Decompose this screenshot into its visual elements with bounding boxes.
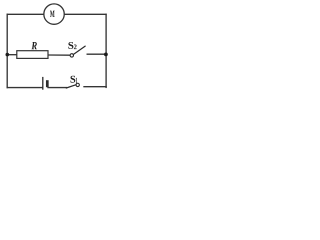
battery long plate [42, 77, 44, 90]
motor label M [50, 11, 55, 17]
switch S2 pivot circle [70, 54, 73, 57]
resistor R box [17, 51, 48, 59]
wire top-left segment [7, 13, 44, 15]
wire bottom-left segment [7, 87, 42, 89]
switch S2 label subscript 2 [74, 45, 77, 50]
wire battery to S1 [48, 87, 66, 89]
switch S1 label S [70, 76, 75, 83]
switch S1 contact circle [76, 83, 79, 86]
wire S1 to bottom-right corner [84, 86, 106, 88]
switch S2 label S [68, 42, 73, 49]
switch S1 blade [66, 85, 76, 88]
resistor label R [31, 42, 36, 49]
junction node right [104, 53, 108, 57]
wire right vertical [105, 14, 107, 87]
wire branch left stub [7, 54, 16, 56]
switch S1 label subscript 1 [76, 78, 77, 83]
junction node left [6, 53, 10, 57]
wire left vertical [6, 14, 8, 87]
wire S2 to right vertical [87, 53, 106, 55]
motor M circle [44, 4, 64, 24]
wire top-right segment [64, 13, 106, 15]
wire resistor to S2 [48, 54, 70, 56]
switch S2 blade [73, 46, 85, 54]
battery short thick plate [46, 80, 49, 87]
